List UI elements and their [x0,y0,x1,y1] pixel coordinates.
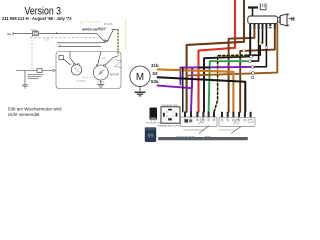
svg-text:gn z New 2011: gn z New 2011 [80,20,101,24]
svg-text:53b am Wischermotor wird: 53b am Wischermotor wird [8,107,62,112]
svg-text:31b: 31b [102,58,105,60]
wire yellow switch pin4 ye-bk [214,55,248,111]
node 30a terminal [12,32,14,35]
svg-text:SO-99-530 relay: SO-99-530 relay [146,122,161,125]
wire box top to pump [70,52,75,64]
svg-text:53: 53 [153,71,158,76]
wire black switch pin1 [204,26,250,112]
motor assembly box [56,52,121,89]
switch plug [278,17,280,23]
wire yellow-black riser [117,29,119,55]
wire black lead switch pin5 [253,26,266,67]
svg-text:53a: 53a [151,79,159,84]
note faint gray marks [45,39,50,40]
wire black 53 [158,77,246,112]
wiper switch body [248,16,278,24]
svg-text:KZT WA: KZT WA [98,80,105,83]
node S tick [55,32,57,34]
switch band bottom line [58,45,101,47]
svg-text:nicht verwendet: nicht verwendet [8,112,40,117]
bead on wire [53,69,55,71]
tip contact beads [104,40,106,42]
svg-text:31b: 31b [151,63,159,68]
wire left circuit horizontal [16,70,56,72]
connector 53a small block [59,56,63,60]
strip pin nubs [184,112,215,118]
wire brown feed from top [187,0,244,112]
dashed vertical wire left [31,37,33,71]
wire black lead switch pin4 [248,26,263,55]
motor circle [93,65,108,80]
relay black box [150,108,158,120]
svg-text:M: M [136,72,144,83]
switch pin nubs [249,24,276,27]
blue box 99 [145,127,156,142]
fuse F [33,32,39,36]
ground bar above switch [248,8,258,17]
crank arm dashed link [82,77,93,79]
wire brown switch pin2 [229,26,255,112]
highlighter pale line [125,18,127,50]
svg-text:12V RELAY 4 PIN: 12V RELAY 4 PIN [162,104,178,107]
svg-text:yel ye-bk: yel ye-bk [98,28,108,30]
connector mini symbol [260,4,266,10]
wire brown from plug [187,24,278,76]
svg-text:yel ye-bk: yel ye-bk [104,24,114,26]
wire main power line [13,33,97,35]
svg-text:TERMINAL 30/51 85 86 87: TERMINAL 30/51 85 86 87 [158,124,181,127]
motor M circle [130,66,150,86]
wire red feed from top [199,0,236,112]
svg-text:99: 99 [148,134,154,140]
wire motor to riser [105,56,118,66]
switch tip converge [97,34,105,43]
svg-text:Crank Arm: Crank Arm [76,80,86,83]
svg-text:Fuse: Fuse [32,28,38,32]
junction beads [243,42,268,79]
switch pin labels [249,27,276,28]
wire purple switch pin5 [181,66,254,69]
gray bus bar [158,137,248,140]
right fuse strip [219,117,255,126]
wire purple 53a to M [158,67,193,88]
connector inline component [37,69,42,73]
left fuse strip [181,117,218,126]
wire black stripes on ye-bk [214,55,260,112]
wire purple branch to strip [191,67,193,111]
wire tip to riser [108,29,114,40]
wire drop to ground [24,71,26,86]
relay socket box [161,107,180,123]
switch band dashed middle [30,37,100,39]
svg-text:53a: 53a [59,45,62,47]
zigzag mark in box [114,60,122,68]
svg-text:switched power: switched power [219,128,236,131]
switch band lower line [57,42,102,44]
wire black branch left strip [182,68,184,112]
wire black lead switch pin3 [250,26,259,61]
wire purple drop at 180 [180,68,182,85]
ground under M [135,87,146,96]
wire box top to motor [98,52,102,66]
pump circle [71,65,82,76]
svg-text:30a: 30a [7,32,12,36]
wire brown switch pin7 [240,26,275,112]
wire green switch pin3 [209,61,250,112]
svg-text:MOTOR: MOTOR [110,73,119,76]
strip inner marks [184,118,186,121]
wire orange 31b [158,69,234,111]
ground left [22,84,28,86]
ground under motor circle [100,80,102,84]
wire black stripe on purple run [200,66,210,68]
note tiny gray text block [28,74,44,79]
svg-text:211 955 113 H - August '68 - J: 211 955 113 H - August '68 - July '72 [2,16,72,21]
